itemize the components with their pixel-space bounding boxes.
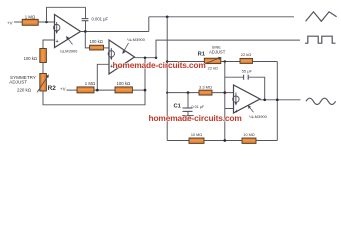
wire 3.3M row [167,92,199,94]
resistor 1 MΩ bias [77,81,96,93]
wire U1 output riser [148,17,150,32]
svg-text:R2: R2 [48,85,57,92]
svg-text:22 kΩ: 22 kΩ [208,65,218,70]
current source symbol U1 [54,22,60,34]
wire U1 output to 100k coupling [85,32,90,48]
wire capacitor to output node [85,21,87,32]
wire +V to R 1M [14,21,22,23]
wire bottom row [167,140,189,142]
current source symbol U2 [108,48,114,60]
svg-text:10 MΩ: 10 MΩ [191,133,202,137]
svg-text:+V: +V [7,20,13,25]
wire C1 branch [187,93,189,108]
node right edge output [276,98,279,101]
wire capacitor branch upper [85,7,87,18]
wire 22k to right edge [253,61,278,63]
node C1 tap [187,91,190,94]
resistor 3.3 MΩ [199,85,212,96]
wire R2 bottom loop to amp U2 [43,58,145,105]
node tap to sine shaper [166,15,169,18]
wire U3 + input stub [225,108,234,110]
annotation arrow U3 [248,105,254,112]
node between 10M resistors [223,139,226,142]
wire feedback top rail [47,7,86,22]
wire sine adjust vertical [224,62,226,141]
annotation arrow U1 [66,36,73,45]
svg-text:¼LM3900: ¼LM3900 [60,49,79,54]
op-amp U1 ¼LM3900 triangle [55,15,81,48]
wire U2 + input riser [97,64,109,90]
svg-text:homemade-circuits.com: homemade-circuits.com [149,113,242,123]
sine wave output symbol [306,98,336,104]
svg-text:1 MΩ: 1 MΩ [25,14,36,19]
wire 100k to feedback node [132,89,145,91]
wire between 10M resistors [204,140,242,142]
wire R1 to 22k [221,61,240,63]
node U2 input [108,47,110,49]
svg-text:55 μF: 55 μF [242,68,253,73]
potentiometer R1 sine adjust [203,57,222,65]
node U2 output square branch [155,56,158,59]
op-amp U2 ¼LM3900 triangle [109,40,135,74]
capacitor 0.001 uF plates [82,19,89,21]
label symmetry adjust [9,75,36,85]
wire square wave line [156,40,300,58]
svg-text:C1: C1 [174,104,182,110]
svg-text:100 kΩ: 100 kΩ [24,56,37,61]
svg-text:ADJUST: ADJUST [9,80,27,85]
wire 55uF to output [249,77,265,100]
wire 100k to R2 [42,63,44,74]
wire right edge vertical [276,62,278,141]
node feedback junction [144,89,147,92]
wire triangle output line [149,16,294,18]
square wave output symbol [305,36,336,43]
wire U3 output [260,99,301,101]
wire U1 lower input to resistor chain [43,40,55,49]
wire 55uF row [225,76,243,78]
label sine adjust [209,45,226,55]
wire to R1 [167,61,204,63]
svg-text:homemade-circuits.com: homemade-circuits.com [113,60,206,70]
resistor 1 MΩ (integrator input) [22,14,38,25]
wire C1 to ground [187,112,189,116]
svg-text:R1: R1 [198,52,206,58]
capacitor C1 0.01 uF plates [183,108,193,111]
wire 1M to 100k [94,89,115,91]
capacitor 55 uF plates [244,75,249,80]
node U2 output feedback [144,56,147,59]
wire 10M to right edge [256,140,277,142]
annotation arrow U2 [122,43,128,54]
wire 1M to amp U1 input [38,21,54,23]
resistor 100 kΩ feedback [115,81,132,93]
svg-text:+: + [56,39,59,45]
svg-text:¼LM3900: ¼LM3900 [127,37,146,42]
resistor 100 kΩ vertical [24,49,47,63]
svg-text:100 kΩ: 100 kΩ [117,81,132,86]
svg-text:¼LM3900: ¼LM3900 [249,114,268,119]
wire 100k to U2 input [104,47,110,49]
node sine adjust top [224,60,227,63]
wire U2 output [135,57,157,59]
node 3.3M row left [166,92,168,94]
svg-text:3.3 MΩ: 3.3 MΩ [199,85,212,90]
wire sine shaper left edge [166,17,168,141]
current source symbol U3 [233,93,239,106]
svg-text:22 kΩ: 22 kΩ [241,52,252,57]
svg-text:1 MΩ: 1 MΩ [85,81,96,86]
node U1 output [84,30,87,33]
resistor 100 kΩ coupling [90,39,104,50]
node junction at 1M/feedback [45,21,48,24]
resistor 22 kΩ [240,52,253,63]
op-amp U3 ¼LM3900 triangle [234,85,261,113]
wire +V to 1M [67,89,78,91]
svg-text:0.001 μF: 0.001 μF [92,16,109,21]
svg-text:ADJUST: ADJUST [209,50,226,55]
node bias junction [96,89,99,92]
resistor 10 MΩ right [242,133,256,143]
wire U1 output [81,31,149,33]
triangle wave output symbol [306,12,337,21]
potentiometer R2 220 kΩ symmetry adjust [37,74,49,93]
svg-text:10 MΩ: 10 MΩ [243,133,254,137]
resistor 10 MΩ left [189,133,204,143]
svg-text:220 kΩ: 220 kΩ [17,88,32,93]
svg-text:0.01 μF: 0.01 μF [192,105,205,109]
svg-text:+V: +V [60,87,66,92]
node R1 row left [166,60,169,63]
node 55uF tap [263,98,266,101]
ground symbol [182,116,193,121]
wire 3.3M to U3 input [212,92,234,94]
node sine adjust mid [223,91,226,94]
svg-text:100 kΩ: 100 kΩ [90,39,103,44]
